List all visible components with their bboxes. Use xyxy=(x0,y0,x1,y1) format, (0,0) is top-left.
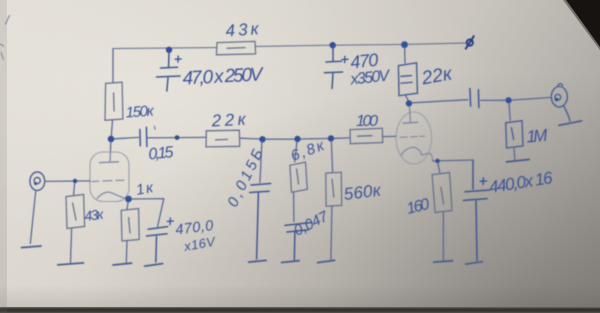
node B (6,8k) xyxy=(294,136,300,142)
wire 22k to anode node xyxy=(406,96,409,101)
wire node to V1 plate xyxy=(109,142,111,152)
capacitor 47,0x250V xyxy=(157,53,181,92)
wire 43k to ground xyxy=(71,229,72,263)
wire 150k to anode node xyxy=(111,121,112,137)
wire coupling cap to output node xyxy=(481,99,506,101)
ground 0,047 xyxy=(282,261,300,263)
wire jack sleeve tail xyxy=(30,190,36,243)
wire cathode to 1k xyxy=(127,203,128,210)
ground 43k xyxy=(58,263,84,265)
node rail / R22k anode tap xyxy=(401,41,408,48)
node V2 anode xyxy=(406,100,412,106)
wire 6,8k to C0,047 xyxy=(293,193,295,222)
node output / 1M xyxy=(506,97,512,103)
wire to 160 xyxy=(438,162,440,173)
B+ terminal xyxy=(466,36,474,48)
resistor 6,8k xyxy=(290,162,307,192)
output jack J2 xyxy=(551,84,570,121)
svg-text:47,0 х 250V: 47,0 х 250V xyxy=(182,64,265,89)
svg-text:150к: 150к xyxy=(125,103,155,122)
resistor 43k top xyxy=(216,41,255,54)
wire: B+ rail right segment xyxy=(333,43,467,45)
svg-text:43к: 43к xyxy=(225,19,260,40)
input jack J1 xyxy=(30,172,45,190)
capacitor 4700x16V xyxy=(147,227,168,262)
tick mark xyxy=(153,126,156,130)
resistor 43k grid leak xyxy=(66,195,85,229)
resistor 100 xyxy=(350,128,383,143)
node rail / C47 tap xyxy=(166,47,172,53)
wire: B+ rail left segment xyxy=(113,48,217,49)
resistor 22k horizontal xyxy=(206,130,240,147)
wire jack to V1 grid xyxy=(45,180,90,183)
triode V2 envelope xyxy=(396,112,432,164)
node rail / C470 tap xyxy=(330,42,336,48)
node A (C0,015) xyxy=(259,136,265,142)
capacitor 470x350V xyxy=(325,48,343,89)
resistor 560k xyxy=(326,172,342,206)
plus sign C470 xyxy=(342,56,348,62)
wire cathode to bypass cap xyxy=(132,199,164,227)
resistor 150k xyxy=(105,82,123,120)
ground 160 xyxy=(434,261,453,262)
wire output node to 1M xyxy=(509,103,510,120)
V2 anode plate xyxy=(403,107,418,124)
node V1 anode xyxy=(108,136,115,143)
node V1 cathode xyxy=(125,196,132,203)
wire node C to R100 xyxy=(334,137,350,139)
wire node to output jack xyxy=(512,97,552,100)
wire cathode rail to cap xyxy=(433,160,474,161)
svg-text:1М: 1М xyxy=(526,126,549,147)
capacitor 440x16 xyxy=(464,161,490,261)
wire 1k to ground xyxy=(125,241,128,262)
ground 1M xyxy=(507,159,529,162)
resistor 1k xyxy=(121,209,139,241)
ground 1k xyxy=(113,263,132,265)
wire 1M to ground xyxy=(514,148,515,160)
wire anode node to C0,15 xyxy=(114,137,138,138)
V1 anode plate xyxy=(100,153,119,163)
svg-text:43к: 43к xyxy=(83,206,105,224)
ground 440 cap xyxy=(466,262,483,265)
V2 cathode xyxy=(401,147,433,161)
wire node B to 6,8k xyxy=(295,142,297,161)
svg-text:0,15: 0,15 xyxy=(148,144,175,164)
ground 560k xyxy=(318,260,335,262)
capacitor 0,047 xyxy=(285,223,312,260)
node C (560k) xyxy=(328,135,334,141)
ground input xyxy=(22,246,42,248)
ink dot on wire xyxy=(175,135,180,140)
V1 grid dashes xyxy=(92,180,124,181)
capacitor coupling xyxy=(470,89,479,108)
ground output jack xyxy=(559,121,582,126)
wire: B+ rail middle segment xyxy=(256,45,333,46)
svg-text:22к: 22к xyxy=(210,110,247,131)
ground 0,015 xyxy=(249,260,267,262)
V1 cathode xyxy=(97,192,128,199)
resistor 1M xyxy=(506,121,523,148)
wire node to coupling cap xyxy=(412,100,468,103)
stray pen marks left edge xyxy=(0,16,10,60)
node grid / 43k xyxy=(73,179,77,183)
plus sign 4700 xyxy=(167,218,173,225)
resistor 22k vertical xyxy=(398,63,417,96)
svg-text:100: 100 xyxy=(356,113,378,130)
resistor 160 xyxy=(432,173,452,213)
wire rail corner to 150k xyxy=(112,49,114,82)
wire 160 to ground xyxy=(442,213,444,260)
wire node C to 560k xyxy=(331,142,332,173)
plus sign C47 xyxy=(175,56,181,62)
wire node A to C0,015 xyxy=(260,142,262,182)
wire node B to node C xyxy=(301,138,328,141)
wire 22k to node A xyxy=(240,137,262,140)
capacitor 0,15 xyxy=(140,127,147,146)
wire C0,15 to 22k xyxy=(148,136,206,139)
ground 4700 xyxy=(145,264,163,267)
V2 grid dashes xyxy=(400,136,425,137)
wire grid node to 43k xyxy=(74,183,75,195)
capacitor 0,015 xyxy=(250,184,271,260)
wire R100 to V2 grid xyxy=(383,135,397,137)
wire 560k to ground xyxy=(331,206,332,259)
wire node A to node B xyxy=(266,138,295,140)
junction 160 tap xyxy=(435,159,440,164)
wire rail node to 22k vertical xyxy=(404,48,406,63)
triode V1 envelope xyxy=(90,152,129,202)
plus sign 440 xyxy=(480,178,487,185)
